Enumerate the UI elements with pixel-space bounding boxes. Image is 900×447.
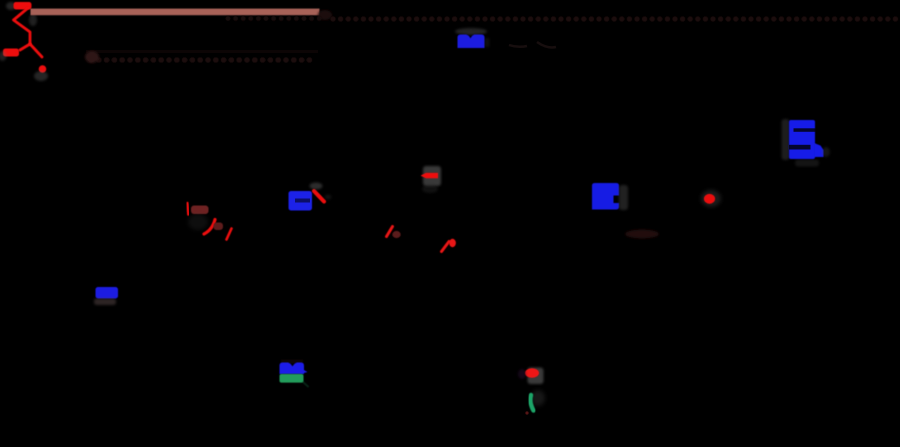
oxygen dot (x452) [449, 239, 456, 247]
bond O tick (diagonal) [227, 229, 232, 240]
amide C=O bond (red diagonal) [314, 191, 324, 202]
polyene dot row B (mid-left, faint maroon) [88, 57, 312, 63]
chloride wisp [303, 382, 308, 387]
hydroxyl label HO (left) [3, 49, 19, 57]
letter gap 1 [794, 128, 816, 132]
carbonyl O halo (lower middle) [528, 368, 544, 385]
ketone oxygen O (red blob) [704, 194, 715, 204]
polyene dot row A (upper, faint maroon) [330, 16, 898, 21]
amide halo above [310, 183, 323, 190]
chlorine label Cl (green, lower) halo [531, 390, 545, 406]
bar end glow [318, 10, 332, 20]
amine label NH (center) [592, 183, 619, 210]
HN letter gap [295, 199, 310, 203]
amine label NH (top middle) [458, 35, 485, 49]
purple tinge left [518, 369, 526, 379]
bond C=O ester [30, 44, 42, 57]
bond to hydroxyl HO (lower) [20, 44, 30, 50]
red O bond diagonal (x445) [442, 242, 450, 252]
ether O red dash [421, 173, 439, 178]
guanidine NH2 arm [814, 143, 824, 157]
dim blob 2 [214, 223, 224, 231]
cluster halo [188, 214, 208, 230]
chloride label Cl green [280, 374, 304, 383]
hydroxyl label HO (top-left) halo [6, 2, 16, 10]
guanidine halo top/bottom [795, 160, 819, 167]
arm halo [822, 147, 830, 157]
ester oxygen cluster: O tick (vertical) [187, 203, 188, 215]
chain cluster left end B [85, 51, 99, 63]
red O diagonal (mid, x390) [387, 227, 393, 237]
ammonium label NH (blue over green salt) tinge [281, 360, 303, 364]
oxygen atom O (carbonyl dot) [39, 65, 47, 73]
amide tail gray [325, 195, 332, 200]
bond O arc (bright red) [204, 220, 215, 235]
guanidine labels halo left [782, 119, 790, 160]
bond halo gray [29, 14, 37, 26]
carbonyl oxygen O red [525, 368, 539, 378]
dim red blob next to it [392, 231, 400, 238]
guanidine stacked N labels (blue block) [789, 120, 815, 159]
amine label NH (top middle) halo [455, 28, 487, 35]
amine label NH (left, small) [96, 287, 119, 299]
hydroxyl halo gray [0, 51, 7, 61]
letter gap 2 [789, 145, 811, 150]
under-bar scallop dots (faint) [226, 16, 322, 21]
hydroxyl label HO (top-left) [14, 2, 32, 10]
NH halo right [619, 185, 628, 210]
ammonium label NH blue [280, 363, 308, 375]
amide label HN [289, 191, 313, 211]
chlorine label Cl green stroke [530, 395, 533, 411]
ketone oxygen O (red blob, right) halo [701, 190, 721, 207]
ether oxygen O with halo (middle) [423, 166, 441, 186]
dim O-H blob [191, 206, 209, 215]
faint red dot below [525, 411, 528, 414]
bond C-OH zigzag (red highlighted) [14, 8, 31, 44]
amine tail halo [485, 38, 490, 47]
oxygen halo gray [34, 71, 48, 81]
NH halo below [94, 299, 116, 306]
chain smear line B [86, 50, 318, 53]
faint bonds right of NH [509, 42, 556, 47]
faint maroon smear (x640,y234) [625, 230, 659, 239]
acyl chain bar (muted red) [31, 9, 320, 16]
shadow below halo [422, 185, 438, 193]
